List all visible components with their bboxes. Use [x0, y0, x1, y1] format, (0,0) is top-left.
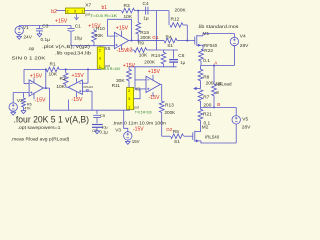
- wire: [24, 69, 29, 83]
- svg-text:2: 2: [67, 10, 69, 14]
- svg-text:C5: C5: [100, 113, 106, 118]
- wire: [201, 65, 235, 67]
- svg-text:.opt savepowers=1: .opt savepowers=1: [18, 125, 61, 131]
- svg-text:15V: 15V: [132, 139, 140, 144]
- svg-text:10K: 10K: [56, 84, 65, 90]
- svg-text:3: 3: [128, 97, 130, 101]
- potentiometer X7: [66, 3, 118, 19]
- svg-text:.meas Rload avg p(RLoad): .meas Rload avg p(RLoad): [11, 136, 70, 142]
- capacitor C6: [169, 50, 185, 67]
- ground: [11, 111, 16, 115]
- svg-text:R21: R21: [203, 112, 212, 118]
- svg-text:C3: C3: [42, 24, 48, 30]
- wire: [24, 68, 101, 70]
- voltage source V1: [15, 25, 33, 40]
- wire: [184, 135, 188, 137]
- wire: [200, 141, 202, 143]
- resistor R7: [198, 90, 212, 109]
- potentiometer X5: [97, 46, 120, 71]
- capacitor C1: [68, 23, 83, 45]
- svg-text:T=0.5 R=1K: T=0.5 R=1K: [90, 14, 118, 18]
- svg-text:28V: 28V: [242, 124, 251, 130]
- svg-text:+15V: +15V: [30, 74, 43, 80]
- wire: [129, 66, 177, 68]
- spice directive .op: [28, 47, 35, 52]
- svg-text:C2: C2: [92, 128, 98, 133]
- svg-text:10K: 10K: [49, 72, 58, 78]
- wire: [132, 49, 135, 51]
- voltage source V3: [115, 127, 139, 144]
- svg-text:R1: R1: [50, 61, 56, 67]
- svg-text:-15V: -15V: [133, 126, 144, 132]
- ground: [125, 140, 130, 144]
- net -15V label: [133, 126, 144, 132]
- svg-text:200K: 200K: [140, 35, 152, 40]
- resistor R11: [112, 63, 136, 89]
- svg-text:T=0.5 R=100: T=0.5 R=100: [100, 67, 120, 71]
- svg-text:X5: X5: [105, 46, 111, 52]
- wire: [71, 45, 114, 47]
- svg-text:+15V: +15V: [72, 73, 85, 79]
- svg-text:-15V: -15V: [35, 98, 46, 104]
- wire: [76, 92, 78, 97]
- meas directive: [11, 136, 70, 142]
- svg-text:24V: 24V: [23, 34, 32, 40]
- svg-text:-15V: -15V: [149, 95, 160, 101]
- op-amp U1: [114, 25, 128, 54]
- wire: [13, 93, 29, 103]
- svg-text:10K: 10K: [139, 52, 148, 58]
- svg-text:10µ: 10µ: [74, 36, 82, 42]
- wire: [201, 106, 237, 108]
- svg-text:R12: R12: [171, 17, 180, 23]
- opt directive: [18, 125, 61, 131]
- svg-text:X7: X7: [85, 3, 91, 9]
- resistor R3: [122, 3, 135, 20]
- spice directive .plot: [42, 44, 91, 50]
- svg-text:R3: R3: [124, 3, 130, 9]
- resistor R8: [198, 66, 214, 89]
- wire: [202, 45, 204, 49]
- capacitor C3: [36, 24, 50, 44]
- spice directive .lib2: [55, 51, 91, 57]
- svg-text:.tran 0 11m 10.9m 100n: .tran 0 11m 10.9m 100n: [112, 121, 166, 127]
- svg-text:OPA134: OPA134: [83, 85, 93, 89]
- voltage source V5: [232, 107, 251, 130]
- resistor RLoad: [212, 66, 232, 108]
- node A label: [214, 61, 218, 66]
- wire: [76, 78, 78, 82]
- wiper arrow: [75, 14, 79, 20]
- resistor R10: [88, 23, 105, 45]
- svg-text:R10: R10: [96, 26, 105, 32]
- resistor R2: [56, 69, 68, 90]
- svg-text:C6: C6: [178, 53, 184, 59]
- svg-text:0.1µ: 0.1µ: [41, 37, 51, 43]
- capacitor C5: [93, 110, 107, 129]
- four directive: [14, 115, 90, 125]
- svg-text:R22: R22: [204, 48, 213, 54]
- capacitor C2: [92, 125, 108, 135]
- svg-text:.lib standard.mos: .lib standard.mos: [198, 24, 240, 30]
- svg-text:2: 2: [128, 89, 130, 93]
- svg-text:.op: .op: [28, 47, 35, 52]
- svg-text:8: 8: [216, 90, 219, 95]
- svg-text:+15V: +15V: [116, 25, 129, 31]
- resistor R5: [171, 129, 184, 145]
- svg-text:V5: V5: [242, 116, 248, 122]
- svg-text:200: 200: [206, 81, 214, 87]
- svg-text:SIN 0 1 20K: SIN 0 1 20K: [12, 55, 47, 61]
- svg-text:B: B: [217, 102, 220, 107]
- wire: [152, 75, 154, 80]
- svg-text:M1: M1: [203, 31, 210, 37]
- ground: [37, 34, 42, 37]
- wire: [50, 88, 93, 110]
- svg-text:V4: V4: [240, 34, 246, 40]
- wire: [121, 45, 123, 50]
- wire: [121, 31, 123, 37]
- voltage source V4: [230, 34, 249, 50]
- svg-text:RLoad: RLoad: [218, 81, 232, 86]
- source text SIN: [12, 55, 47, 61]
- svg-text:pot: pot: [134, 106, 139, 110]
- net G2 label: [166, 127, 173, 132]
- voltage source V2: [9, 98, 23, 111]
- transistor M1: [190, 31, 218, 48]
- switch S1 label: [167, 43, 173, 49]
- wire: [203, 34, 234, 36]
- svg-text:IRF540: IRF540: [203, 43, 218, 48]
- wire: [108, 19, 132, 40]
- svg-text:b2: b2: [127, 47, 133, 53]
- op-amp U4: [146, 69, 160, 101]
- tran directive: [112, 121, 166, 127]
- resistor R13: [159, 101, 176, 115]
- net b1 label: [102, 5, 108, 11]
- op-amp U2: [29, 74, 46, 104]
- svg-text:1µ: 1µ: [180, 60, 185, 65]
- resistor R9: [134, 41, 148, 59]
- wire: [201, 142, 237, 144]
- svg-text:C1: C1: [75, 23, 81, 29]
- wire: [129, 40, 140, 42]
- wire: [33, 78, 35, 83]
- svg-text:C4: C4: [143, 1, 149, 7]
- wire: [235, 124, 237, 143]
- wire: [134, 89, 146, 99]
- svg-text:2: 2: [99, 49, 101, 53]
- wire: [85, 10, 122, 12]
- wire: [124, 110, 128, 132]
- svg-text:+15V: +15V: [148, 69, 161, 75]
- svg-text:R2: R2: [60, 76, 66, 82]
- ground: [94, 131, 99, 134]
- potentiometer X8: [127, 87, 152, 115]
- wire: [135, 67, 146, 89]
- wire: [66, 86, 68, 88]
- svg-text:.four 20K 5 1 v(A,B): .four 20K 5 1 v(A,B): [14, 115, 90, 125]
- wire: [155, 11, 157, 50]
- svg-text:0.1µ: 0.1µ: [100, 129, 109, 134]
- svg-text:R9: R9: [138, 41, 144, 47]
- wire: [135, 10, 170, 12]
- net b2 label: [127, 47, 133, 53]
- svg-text:R8: R8: [203, 74, 209, 80]
- svg-text:R7: R7: [203, 94, 209, 100]
- wire: [43, 69, 49, 89]
- wire: [160, 84, 161, 101]
- svg-text:1: 1: [128, 105, 130, 109]
- wire: [152, 92, 154, 96]
- svg-text:28V: 28V: [240, 43, 249, 49]
- wire: [92, 109, 130, 111]
- net +15V label: [55, 19, 68, 25]
- svg-text:R13: R13: [165, 103, 174, 109]
- svg-text:V1: V1: [23, 25, 29, 31]
- resistor R21: [198, 107, 212, 131]
- wire: [183, 25, 188, 42]
- node B label: [217, 102, 220, 107]
- svg-text:R5: R5: [173, 129, 179, 135]
- svg-text:R14: R14: [151, 53, 160, 59]
- svg-text:.plot v(A,B), v(g2): .plot v(A,B), v(g2): [42, 44, 91, 50]
- resistor R12: [170, 8, 187, 28]
- resistor R15: [136, 11, 152, 41]
- wire: [68, 91, 92, 110]
- svg-text:b1: b1: [102, 5, 108, 11]
- svg-text:-15V: -15V: [72, 97, 83, 103]
- wire: [138, 40, 190, 42]
- svg-text:R4: R4: [166, 35, 172, 41]
- svg-text:.lib opa134.lib: .lib opa134.lib: [55, 51, 91, 57]
- wire: [57, 10, 66, 12]
- svg-text:M2: M2: [202, 125, 209, 131]
- svg-text:S1: S1: [174, 139, 180, 145]
- svg-text:S1: S1: [167, 43, 173, 49]
- capacitor C4: [143, 1, 149, 22]
- resistor R14: [144, 50, 166, 67]
- svg-text:IRL540: IRL540: [205, 135, 220, 140]
- wire: [201, 49, 203, 51]
- wire: [161, 112, 163, 136]
- resistor R6: [22, 93, 32, 111]
- svg-text:200K: 200K: [144, 59, 156, 64]
- svg-text:1µ: 1µ: [143, 15, 149, 21]
- wire: [82, 68, 89, 83]
- resistor R1: [46, 61, 59, 77]
- resistor R22: [199, 48, 214, 66]
- wire: [19, 25, 71, 27]
- transistor M2: [188, 125, 220, 143]
- svg-text:G1: G1: [152, 35, 159, 40]
- lib directive: [198, 24, 240, 30]
- svg-text:V3: V3: [115, 127, 121, 133]
- ground: [21, 111, 26, 114]
- junction arrow: [193, 87, 200, 90]
- svg-text:0.1: 0.1: [203, 58, 210, 64]
- wire: [168, 11, 170, 25]
- svg-text:R11: R11: [112, 83, 121, 89]
- svg-text:T=0.5 R=100: T=0.5 R=100: [135, 110, 152, 114]
- wire: [147, 49, 178, 51]
- wire: [162, 135, 170, 137]
- op-amp U3: [68, 73, 93, 103]
- svg-text:b2: b2: [51, 9, 57, 15]
- svg-text:3: 3: [99, 57, 101, 61]
- ground: [17, 35, 22, 40]
- svg-text:200K: 200K: [175, 8, 187, 14]
- svg-text:+15V: +15V: [123, 63, 136, 69]
- wire: [100, 68, 102, 70]
- svg-text:+15V: +15V: [55, 19, 68, 25]
- wire: [233, 46, 235, 66]
- svg-text:3: 3: [74, 10, 76, 14]
- net G1 label: [152, 35, 159, 40]
- net b2 label: [51, 9, 57, 15]
- wire: [33, 93, 35, 100]
- svg-text:30K: 30K: [95, 33, 104, 39]
- svg-text:200K: 200K: [165, 110, 177, 115]
- svg-text:1: 1: [81, 10, 83, 14]
- resistor R4: [164, 35, 177, 43]
- svg-text:47K: 47K: [24, 107, 31, 111]
